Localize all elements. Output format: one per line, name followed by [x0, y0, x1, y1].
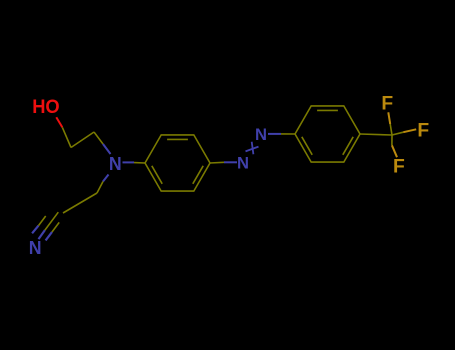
- svg-text:N: N: [237, 154, 249, 173]
- svg-text:F: F: [393, 156, 405, 177]
- svg-text:N: N: [255, 125, 267, 144]
- svg-text:N: N: [109, 153, 122, 174]
- svg-text:F: F: [417, 120, 429, 141]
- svg-text:F: F: [381, 93, 393, 114]
- svg-text:N: N: [29, 237, 42, 258]
- svg-text:HO: HO: [32, 96, 60, 118]
